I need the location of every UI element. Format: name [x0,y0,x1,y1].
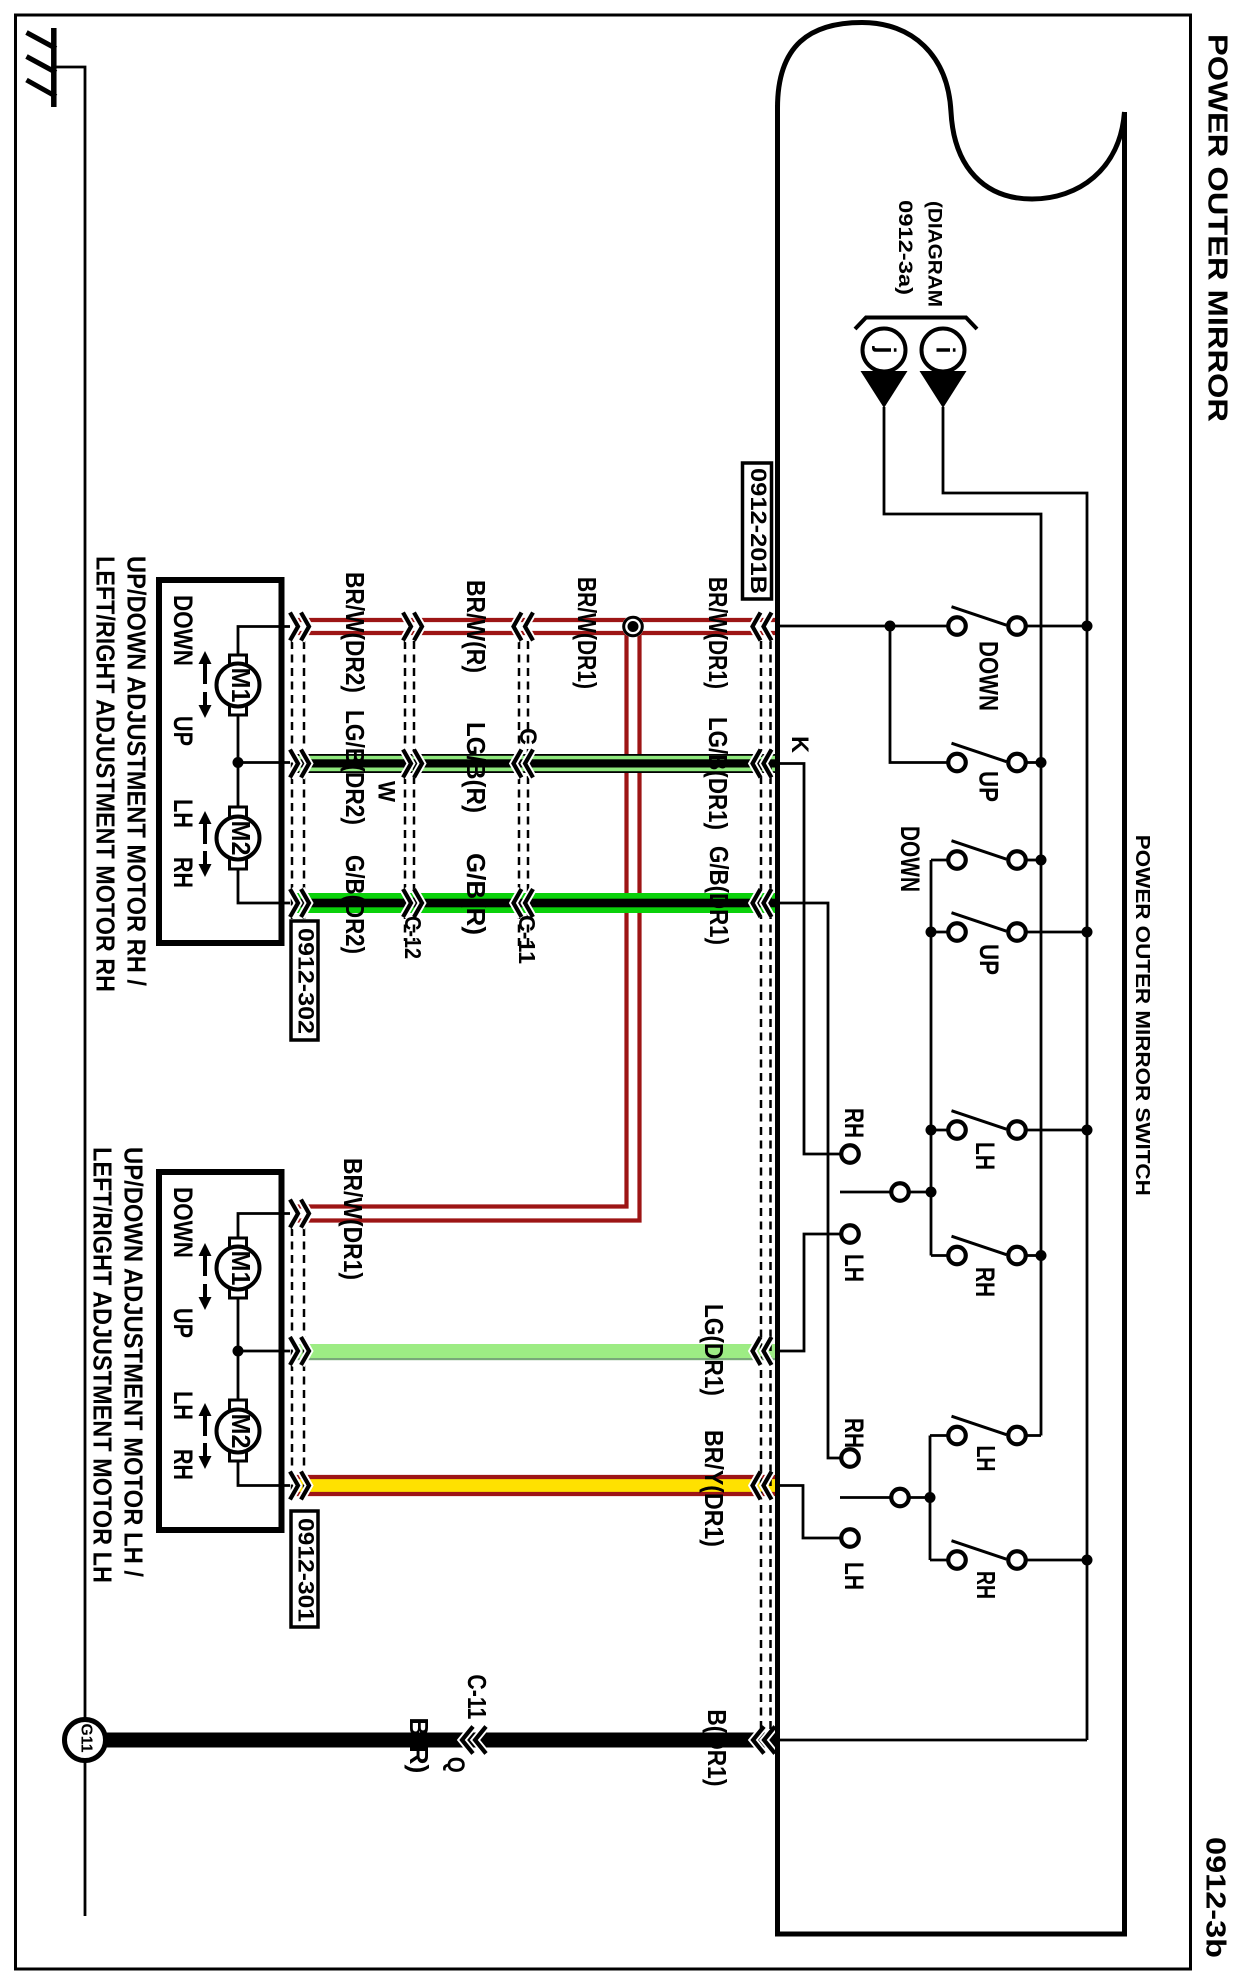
svg-text:RH: RH [971,1571,1001,1599]
svg-text:C-12: C-12 [400,916,426,959]
chevrons 0912-302 on BRW row [290,613,298,641]
switch LH 1 contacts [948,1121,966,1139]
wire G/B to selector RH 2 [777,903,841,1458]
svg-text:RH: RH [839,1108,869,1138]
connector C-11 dashed boundary [518,641,521,946]
connector 0912-201B dashed boundary [760,641,763,1734]
connector box 0912-301 [291,1511,318,1627]
svg-text:BR/W(DR1): BR/W(DR1) [572,577,602,689]
svg-text:UP: UP [168,1308,198,1338]
wire M1 bottom to junction [237,715,240,763]
svg-text:RH: RH [839,1418,869,1448]
chevrons 0912-301 on LG row [290,1337,298,1365]
chevrons 0912-201B on BRW row [753,613,761,641]
svg-text:B(DR1): B(DR1) [702,1709,732,1786]
svg-text:UP: UP [974,944,1004,975]
wire LG to selector LH 1 [777,1234,841,1351]
svg-text:i: i [931,346,961,353]
svg-text:LH: LH [168,799,198,828]
node selector1 common [926,1187,937,1198]
chevrons 0912-301 on BRY row [290,1472,298,1500]
chevrons 0912-302 on LGB row [290,750,298,778]
svg-text:LG/B(R): LG/B(R) [461,722,491,813]
motor M2 LH [230,1400,247,1413]
wire M2 bottom to G/B row [238,869,290,903]
box UP/DOWN ADJUSTMENT MOTOR LH [159,1172,282,1530]
svg-text:C-11: C-11 [462,1674,492,1719]
connector 0912-201B chevrons on B wire [753,1727,764,1754]
node row1 to i wire [1082,621,1093,632]
svg-text:0912-3b: 0912-3b [1201,1837,1232,1958]
chevrons 0912-301 on BRW2 row [290,1200,298,1228]
connector i triangle [920,371,967,408]
connector 0912-301 dashed boundary [291,1228,294,1497]
chevrons 0912-302 on GB row [290,889,298,917]
motor M2 RH [230,807,247,820]
node row4 left [926,927,937,938]
ground symbol (chassis) top-left [27,28,57,107]
svg-text:LEFT/RIGHT ADJUSTMENT MOTOR RH: LEFT/RIGHT ADJUSTMENT MOTOR RH [91,556,121,992]
chevrons 0912-201B on GB row [753,889,761,917]
chevrons 0912-201B on LGB row [753,750,761,778]
svg-text:RH: RH [168,857,198,888]
wire M1 bottom to junction [237,1298,240,1351]
box right edge [1122,112,1127,1937]
svg-text:G/B(R): G/B(R) [461,853,491,935]
switch RH 2 blade [952,1541,1007,1560]
svg-text:UP/DOWN ADJUSTMENT MOTOR LH /: UP/DOWN ADJUSTMENT MOTOR LH / [119,1147,149,1577]
svg-text:RH: RH [970,1267,1000,1297]
selector 2 common [840,1496,892,1499]
wire ground stub to G11 bus [56,67,85,1720]
switch DOWN 1 contacts [948,617,966,635]
switch RH 1 contacts [948,1247,966,1265]
svg-text:BR/W(R): BR/W(R) [461,580,491,673]
selector 1 throw RH contact [841,1145,859,1163]
svg-text:j: j [872,345,902,353]
switch RH 1 blade [952,1236,1007,1255]
svg-text:DOWN: DOWN [168,595,198,666]
selector 2 throw RH contact [841,1449,859,1467]
wire BR/W(DR1) branch from LH motor (under rows) [296,624,640,1221]
svg-text:C-11: C-11 [514,915,540,964]
wire junction to LG row [238,1350,290,1353]
wire junction to M2 top [237,1351,240,1401]
box left edge [775,105,780,1937]
node row5 left [926,1125,937,1136]
svg-text:W: W [373,781,400,802]
selector 1 throw LH contact [841,1225,859,1243]
svg-text:UP: UP [974,771,1004,802]
node junction M1/M2 to LG/B [233,757,244,768]
svg-text:LEFT/RIGHT ADJUSTMENT MOTOR LH: LEFT/RIGHT ADJUSTMENT MOTOR LH [88,1147,118,1583]
svg-text:M2: M2 [226,1414,256,1449]
svg-text:POWER OUTER MIRROR SWITCH: POWER OUTER MIRROR SWITCH [1131,835,1153,1196]
svg-text:LH: LH [168,1391,198,1420]
chevrons C-12 on LGB row [403,750,411,778]
arrow up/down (RH box M1) [199,651,212,718]
wire M2 bottom to BR/Y row [238,1461,290,1486]
wire LG/B row light green with black core and edges [296,754,777,773]
chevrons C-12 on GB row [403,889,411,917]
svg-text:DOWN: DOWN [895,826,925,892]
svg-text:0912-201B: 0912-201B [746,468,771,594]
wire DOWN row 3 [931,859,949,862]
node row5 right [1082,1125,1093,1136]
node junction M1/M2 to LG [233,1346,244,1357]
switch DOWN 1 blade [952,607,1007,626]
switch LH 2 blade [952,1416,1007,1435]
box bottom edge [775,1932,1127,1937]
wire selector2 ladder vertical [929,1436,932,1561]
connector j triangle [861,371,908,408]
switch DOWN 2 contacts [948,851,966,869]
node splice junction BR/W branch on row 1 [622,616,644,638]
svg-text:0912-302: 0912-302 [294,928,319,1034]
wire stub below G11 [84,1761,87,1917]
box UP/DOWN ADJUSTMENT MOTOR RH [159,580,282,943]
wire LH row (selector pair 2) [930,1434,949,1437]
wire B ground wire thick black [106,1733,778,1748]
wire from i to DOWN row and ground net [943,407,1087,1740]
wire junction to M2 top [237,763,240,809]
switch LH 2 contacts [948,1427,966,1445]
svg-text:G/B(DR2): G/B(DR2) [340,855,370,954]
connector box 0912-302 [291,921,318,1040]
wire BR/Y row yellow with red edges [296,1477,777,1494]
svg-text:M1: M1 [226,668,256,703]
chevrons C-12 on BRW row [403,613,411,641]
svg-text:G11: G11 [78,1724,95,1753]
wire B row inside box [777,1739,1087,1742]
bracket over j/i connectors [855,318,977,330]
svg-text:0912-301: 0912-301 [294,1518,319,1622]
node row4 right [1082,927,1093,938]
svg-text:BR/W(DR1): BR/W(DR1) [703,577,733,689]
svg-text:K: K [786,736,813,754]
wire UP row 4 [931,931,949,934]
node RH2 right [1082,1555,1093,1566]
svg-text:M1: M1 [226,1251,256,1286]
switch UP 1 contacts [948,754,966,772]
svg-text:(DIAGRAM: (DIAGRAM [923,201,945,307]
node row2 to j wire [1036,757,1047,768]
wire BR/Y to selector LH 2 [777,1486,841,1539]
wire LH row 5 [931,1129,949,1132]
svg-text:LH: LH [970,1142,1000,1170]
motor M1 LH [230,1238,247,1251]
svg-text:M2: M2 [226,821,256,856]
switch LH 1 blade [952,1111,1007,1130]
wire UP row 2 [890,626,949,763]
ground G11 circle [65,1720,106,1761]
wire M1 top to BR/W(DR1) row [238,1214,290,1240]
wire from j to UP/DOWN ladder [884,407,1041,1436]
wire G/B row green with black core [296,893,777,913]
connector j circle [863,329,906,372]
wire junction to LG/B row [238,761,290,764]
switch UP 1 blade [952,743,1007,762]
connector 0912-302 dashed boundary [291,641,294,941]
svg-text:LH: LH [839,1562,869,1590]
connector i circle [922,329,965,372]
connector C-11 chevrons on B wire [462,1727,473,1754]
wire DOWN row 1 [777,625,949,628]
node row6 right [1036,1250,1047,1261]
arrow up/down (RH box M2) [199,811,212,877]
svg-text:DOWN: DOWN [974,641,1004,711]
box S-curve top edge [778,23,1125,200]
arrow up/down (LH box M2) [199,1403,212,1469]
svg-text:G/B(DR1): G/B(DR1) [704,846,734,945]
motor M1 RH [230,655,247,668]
svg-text:UP: UP [168,716,198,746]
svg-text:C: C [514,728,541,745]
wire selector ladder left vertical [930,860,933,1256]
svg-text:0912-3a): 0912-3a) [894,200,916,295]
node row3 to j wire [1036,855,1047,866]
svg-text:RH: RH [168,1449,198,1480]
svg-text:POWER OUTER MIRROR: POWER OUTER MIRROR [1203,34,1234,422]
wire RH row (selector pair 2) [930,1559,949,1562]
wire M1 top to BR/W row [238,627,290,657]
node selector2 common [925,1492,936,1503]
svg-text:BR/W(DR1): BR/W(DR1) [338,1158,368,1280]
chevrons 0912-201B on BRY row [753,1472,761,1500]
switch RH 2 contacts [948,1551,966,1569]
arrow up/down (LH box M1) [199,1243,212,1310]
selector 2 throw LH contact [841,1529,859,1547]
switch UP 2 blade [952,913,1007,932]
wire LG(DR1) row light green band [296,1344,777,1360]
svg-text:BR/Y(DR1): BR/Y(DR1) [699,1430,729,1547]
wire RH row 6 [931,1254,949,1257]
svg-text:LH: LH [839,1254,869,1282]
svg-text:B(R): B(R) [404,1717,434,1773]
switch UP 2 contacts [948,923,966,941]
chevrons 0912-201B on LG row [753,1337,761,1365]
chevrons C-11 on GB row [514,889,522,917]
wire K from LG/B to selector RH [777,764,841,1155]
svg-text:BR/W(DR2): BR/W(DR2) [340,572,370,693]
chevrons C-11 on BRW row [514,613,522,641]
svg-text:UP/DOWN ADJUSTMENT MOTOR RH /: UP/DOWN ADJUSTMENT MOTOR RH / [122,556,152,986]
connector box 0912-201B [743,463,772,599]
connector C-12 dashed boundary [404,641,407,941]
svg-text:Q: Q [442,1757,469,1773]
switch DOWN 2 blade [952,841,1007,860]
svg-text:LG/B(DR1): LG/B(DR1) [703,717,733,830]
svg-text:DOWN: DOWN [168,1187,198,1258]
wire BR/W row (RH motor to switch) double red line [296,620,777,633]
svg-text:LG/B(DR2): LG/B(DR2) [340,710,370,825]
selector 1 common [840,1191,892,1194]
svg-text:LH: LH [971,1446,1001,1472]
node row1 branch [885,621,896,632]
chevrons C-11 on LGB row [514,750,522,778]
svg-text:LG(DR1): LG(DR1) [699,1304,729,1396]
